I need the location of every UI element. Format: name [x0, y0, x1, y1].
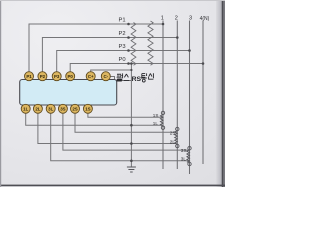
net labels P1 P2 P3 P0	[119, 17, 126, 63]
bus labels 1 2 3 4(N)	[161, 16, 210, 22]
svg-text:P2: P2	[40, 74, 46, 79]
pin 2S	[71, 104, 80, 113]
pin P1	[25, 72, 34, 81]
wire P1 pin to bus 1	[29, 24, 163, 72]
CT1 current transformer on bus 1	[160, 111, 164, 129]
wire 1S pin to CT1	[88, 113, 162, 118]
ground	[127, 167, 136, 172]
svg-text:2S: 2S	[72, 106, 77, 111]
svg-text:RS: RS	[132, 76, 142, 83]
pin 3L	[46, 104, 55, 113]
wire 3S pin to CT3	[63, 113, 189, 151]
pin circles bottom	[21, 104, 92, 113]
svg-text:3: 3	[189, 16, 192, 22]
svg-text:1S: 1S	[153, 113, 159, 118]
resistor chain R2 (voltage divider)	[148, 21, 153, 65]
wire 1L pin to CT1	[26, 113, 162, 126]
pin labels bottom	[23, 106, 91, 111]
node C+ join	[130, 69, 132, 71]
svg-text:1: 1	[161, 16, 164, 22]
svg-text:P3: P3	[54, 74, 60, 79]
node bus1 top	[162, 23, 165, 26]
wire 2S pin to CT2	[75, 113, 176, 133]
svg-text:3S: 3S	[181, 148, 187, 153]
top border	[0, 0, 225, 1]
node ground/P0	[130, 62, 133, 65]
wire 3L pin to CT3	[51, 113, 189, 161]
bus line 4N	[202, 21, 204, 165]
node 2L ground	[130, 142, 133, 145]
svg-text:C-: C-	[103, 74, 108, 79]
wire P0 pin to bus 4N	[70, 64, 203, 73]
bus line 3	[189, 21, 191, 175]
bus line 2	[176, 21, 178, 170]
node 3L ground	[130, 160, 133, 163]
pin 3S	[58, 104, 67, 113]
svg-text:1L: 1L	[153, 121, 159, 126]
pin P3	[52, 72, 61, 81]
svg-text:P1: P1	[119, 17, 126, 23]
node bus4 top	[202, 62, 205, 65]
junction dots	[127, 23, 204, 162]
svg-text:3L: 3L	[181, 157, 187, 162]
node 1L ground	[130, 124, 133, 127]
wire P3 pin to bus 3	[57, 51, 190, 73]
wire C- pulse output	[110, 77, 131, 81]
svg-text:1S: 1S	[85, 106, 90, 111]
resistor chain R1 (voltage divider taps P1-P0)	[131, 23, 136, 66]
pin C+	[86, 72, 95, 81]
pin 1L	[21, 104, 30, 113]
left border	[0, 0, 1, 187]
svg-text:1L: 1L	[23, 106, 28, 111]
bottom border	[0, 185, 225, 187]
CT terminal labels	[153, 113, 187, 162]
CT2 current transformer on bus 2	[175, 127, 179, 147]
svg-text:2L: 2L	[170, 140, 176, 145]
wire C+ pulse output	[91, 70, 132, 72]
wire neutral to ground	[130, 64, 132, 168]
svg-text:4(N): 4(N)	[200, 16, 210, 22]
pin P2	[38, 72, 47, 81]
label pulse (펄스) hand-drawn hangul	[117, 73, 130, 81]
node P3 tap	[127, 49, 130, 52]
svg-text:P1: P1	[26, 74, 32, 79]
wire P2 pin to bus 2	[42, 38, 177, 73]
node bus3 top	[188, 49, 191, 52]
svg-text:3S: 3S	[60, 106, 65, 111]
right edge shadow band	[216, 0, 225, 187]
pin C-	[101, 72, 110, 81]
CT3 current transformer on bus 3	[187, 147, 191, 166]
svg-text:P0: P0	[119, 57, 126, 63]
svg-text:2: 2	[175, 16, 178, 22]
pin 2L	[33, 104, 42, 113]
wire 2L pin to CT2	[38, 113, 176, 144]
svg-text:P2: P2	[119, 31, 126, 37]
node P1 tap	[127, 23, 130, 26]
node P0 tap	[127, 62, 130, 65]
svg-text:P3: P3	[119, 44, 126, 50]
svg-text:C+: C+	[88, 74, 94, 79]
pin P0	[66, 72, 75, 81]
node P2 tap	[127, 36, 130, 39]
svg-text:2L: 2L	[35, 106, 40, 111]
pin circles top	[25, 72, 111, 81]
svg-text:2S: 2S	[170, 131, 176, 136]
svg-text:3L: 3L	[48, 106, 53, 111]
svg-text:P0: P0	[68, 74, 74, 79]
IC U1 meter chip body	[20, 80, 117, 106]
bus line 1	[162, 21, 164, 170]
pin labels top	[26, 74, 108, 79]
node bus2 top	[176, 36, 179, 39]
pin 1S	[83, 104, 92, 113]
